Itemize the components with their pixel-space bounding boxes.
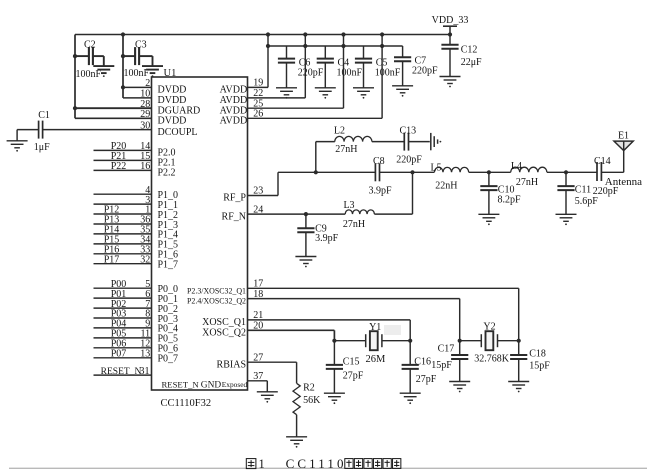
wire pin 24 RF_N: [248, 213, 346, 215]
inductor L3 27nH: [343, 200, 375, 230]
capacitor C5 100nF: [355, 46, 401, 88]
svg-text:1: 1: [259, 457, 265, 471]
svg-text:100nF: 100nF: [337, 67, 363, 78]
svg-text:5.6pF: 5.6pF: [575, 196, 599, 207]
pin 2 DVDD left: [145, 78, 186, 96]
inductor L2 27nH: [334, 126, 372, 156]
wire pin 17: [248, 287, 519, 289]
svg-text:Exposed: Exposed: [222, 380, 248, 389]
capacitor C15 27pF: [326, 341, 364, 394]
svg-text:13: 13: [140, 349, 150, 360]
svg-text:3.9pF: 3.9pF: [368, 186, 392, 197]
antenna E1: [605, 131, 642, 188]
pin 33 P1_6 left: [94, 245, 179, 261]
wire L2 to C13: [372, 141, 404, 143]
pin 30 DCOUPL left: [140, 120, 197, 138]
pin 10 DVDD left: [140, 89, 186, 107]
ground C2: [93, 66, 114, 77]
capacitor C10 8.2pF: [480, 172, 521, 214]
pin 3 P1_1 left: [94, 195, 179, 211]
capacitor C3 100nF: [121, 40, 153, 80]
svg-text:VDD_33: VDD_33: [432, 15, 469, 26]
svg-text:P07: P07: [111, 349, 127, 360]
svg-text:29: 29: [140, 109, 150, 120]
node top rail drop pin19: [266, 32, 270, 36]
pin 8 P0_3 left: [94, 309, 179, 325]
svg-text:C15: C15: [343, 356, 360, 367]
capacitor C6 220pF: [278, 46, 324, 88]
svg-text:RF_N: RF_N: [222, 211, 246, 222]
svg-text:R2: R2: [303, 383, 315, 394]
node VDD_33 junction: [448, 32, 452, 36]
svg-text:22μF: 22μF: [461, 57, 482, 68]
pin 7 P0_2 left: [94, 299, 179, 315]
svg-text:GND: GND: [201, 380, 222, 390]
capacitor C7 220pF: [394, 46, 438, 86]
svg-text:P1_7: P1_7: [158, 260, 179, 271]
svg-text:P2.2: P2.2: [158, 168, 176, 179]
wire R2 to ground: [296, 415, 298, 437]
svg-text:27pF: 27pF: [343, 370, 364, 381]
node top rail drop pin26: [380, 32, 384, 36]
svg-text:30: 30: [140, 120, 150, 131]
node top rail / C3 rail junction: [121, 32, 125, 36]
pin 27 right: [217, 352, 264, 370]
pin 32 P1_7 left: [94, 254, 179, 270]
caption figure rule: [9, 467, 647, 469]
svg-text:U1: U1: [164, 68, 177, 79]
svg-text:220pF: 220pF: [412, 65, 438, 76]
svg-text:P0_7: P0_7: [158, 354, 179, 365]
pin 21 right: [202, 310, 263, 328]
svg-text:15pF: 15pF: [529, 360, 550, 371]
svg-text:P2.4/XOSC32_Q2: P2.4/XOSC32_Q2: [187, 297, 246, 306]
svg-text:RESET_N: RESET_N: [162, 379, 200, 389]
svg-text:27nH: 27nH: [516, 177, 538, 188]
wire pin 10 DVDD: [123, 97, 152, 99]
pin 16 P2.2 left: [94, 161, 176, 179]
svg-text:26: 26: [253, 109, 263, 120]
wire left DVDD rail: [74, 35, 76, 119]
wire C13 to ground stub: [409, 141, 430, 143]
pin 37 right: [253, 371, 263, 382]
svg-text:DVDD: DVDD: [158, 116, 187, 127]
capacitor C8 3.9pF: [368, 156, 392, 197]
capacitor C4 100nF: [317, 46, 363, 88]
node RF C10 tap: [487, 170, 491, 174]
svg-text:AVDD: AVDD: [220, 116, 248, 127]
svg-text:C16: C16: [414, 357, 431, 368]
svg-text:P22: P22: [111, 161, 127, 172]
capacitor C18 15pF: [510, 341, 550, 382]
crystal Y1 26M: [365, 322, 386, 365]
pin 6 P0_1 left: [94, 289, 179, 305]
ground C4: [315, 88, 336, 99]
svg-text:E1: E1: [618, 131, 629, 142]
ground C9: [295, 257, 316, 268]
svg-text:32.768K: 32.768K: [474, 354, 510, 365]
pin 17 right: [187, 279, 263, 296]
svg-text:L3: L3: [343, 200, 354, 211]
svg-text:C18: C18: [529, 349, 546, 360]
pin 34 P1_5 left: [94, 235, 179, 251]
pin 15 P2.1 left: [94, 151, 176, 169]
svg-text:P17: P17: [104, 254, 120, 265]
capacitor C16 27pF: [402, 341, 437, 394]
pin 29 DVDD left: [140, 109, 186, 127]
wire pin 28 DGUARD: [75, 107, 152, 109]
ground C17: [449, 382, 470, 393]
svg-text:31: 31: [140, 366, 150, 377]
svg-text:27pF: 27pF: [416, 374, 437, 385]
node bypass rail x382: [380, 44, 384, 48]
svg-text:26M: 26M: [365, 354, 386, 365]
svg-text:1μF: 1μF: [34, 142, 50, 153]
svg-text:220pF: 220pF: [298, 67, 324, 78]
svg-text:P2.3/XOSC32_Q1: P2.3/XOSC32_Q1: [187, 286, 246, 295]
svg-text:C12: C12: [461, 45, 478, 56]
wire pin 25 AVDD: [248, 107, 344, 109]
ground C10: [478, 214, 499, 225]
wire pin 21: [248, 319, 411, 321]
inductor L4 27nH: [511, 161, 547, 188]
wire pin 26 AVDD: [248, 117, 383, 119]
pin 28 DGUARD left: [140, 99, 200, 117]
crystal Y2 32.768K: [474, 322, 510, 365]
wire pin 23 RF_P: [248, 195, 279, 197]
svg-text:19: 19: [253, 78, 263, 89]
pin 24 right: [222, 204, 264, 222]
ground C1: [7, 141, 28, 152]
wire VDD top rail: [75, 34, 450, 36]
node pin2 junction on C3 rail: [121, 85, 125, 89]
wire Y2 leads: [460, 340, 482, 342]
svg-text:CC1110: CC1110: [286, 456, 347, 471]
svg-text:C11: C11: [575, 184, 591, 195]
resistor R2 56K: [293, 383, 321, 415]
node RF C11 tap: [564, 170, 568, 174]
node C9 tap: [304, 212, 308, 216]
svg-text:DVDD: DVDD: [158, 85, 187, 96]
svg-text:DCOUPL: DCOUPL: [158, 127, 198, 138]
pin 14 P2.0 left: [94, 141, 176, 159]
node Y1 right: [408, 339, 412, 343]
svg-text:XOSC_Q1: XOSC_Q1: [202, 317, 246, 328]
svg-text:100nF: 100nF: [76, 69, 102, 80]
svg-text:220pF: 220pF: [396, 154, 422, 165]
svg-text:RESET_N: RESET_N: [101, 367, 142, 377]
wire pin 27 RBIAS: [248, 361, 297, 363]
svg-text:L4: L4: [511, 161, 522, 172]
wire pin 20: [248, 329, 335, 331]
node top rail drop pin25: [341, 32, 345, 36]
svg-text:32: 32: [140, 254, 150, 265]
svg-text:15pF: 15pF: [431, 360, 452, 371]
op IC U1 CC1110F32 body: [152, 77, 248, 390]
pin 13 P0_7 left: [94, 349, 179, 365]
svg-text:CC1110F32: CC1110F32: [161, 398, 212, 409]
node RF L2 branch: [314, 170, 318, 174]
node RF C8 out: [410, 170, 414, 174]
svg-text:C3: C3: [135, 40, 147, 51]
pin 25 right: [220, 98, 264, 116]
svg-text:RF_P: RF_P: [223, 193, 246, 204]
wire pin 29 DVDD: [75, 117, 152, 119]
capacitor C17 15pF: [431, 341, 468, 382]
pin 26 right: [220, 109, 264, 127]
svg-text:16: 16: [140, 161, 150, 172]
svg-text:AVDD: AVDD: [220, 85, 248, 96]
capacitor C2 100nF: [73, 40, 104, 81]
node bypass rail x268: [266, 44, 270, 48]
ground R2: [286, 437, 307, 448]
svg-text:C8: C8: [373, 156, 385, 167]
pin 31 RESET_N left: [94, 366, 152, 377]
wire pin 18: [248, 298, 460, 300]
wire AVDD bypass rail: [268, 45, 403, 47]
pin 4 P1_0 left: [94, 185, 179, 201]
wire C8 node to RF_N line: [412, 172, 414, 214]
capacitor C13 220pF: [396, 126, 422, 166]
svg-text:8.2pF: 8.2pF: [498, 195, 522, 206]
wire pin 37 GND: [248, 380, 268, 382]
pin 22 right: [220, 88, 264, 106]
svg-text:C1: C1: [38, 110, 50, 121]
svg-text:Antenna: Antenna: [605, 176, 642, 188]
ground C15: [324, 393, 345, 404]
capacitor C9 3.9pF: [297, 214, 338, 256]
svg-text:22nH: 22nH: [435, 181, 457, 192]
capacitor C12 22uF: [441, 35, 482, 77]
svg-text:27nH: 27nH: [335, 144, 357, 155]
node bypass rail x343: [341, 44, 345, 48]
wire pin 2 DVDD: [123, 86, 152, 88]
scan artifact smudge: [384, 325, 401, 335]
ground C5: [353, 88, 374, 99]
svg-text:Y2: Y2: [483, 322, 495, 333]
ground C7: [392, 86, 413, 97]
wire pin 22 AVDD: [248, 97, 306, 99]
node bypass rail x305: [303, 44, 307, 48]
wire pin 19 AVDD: [248, 86, 269, 88]
node top rail drop pin22: [303, 32, 307, 36]
ground C13 sideways: [431, 133, 442, 150]
node Y1 left: [332, 339, 336, 343]
caption 图1 CC1110硬件电路设计: [246, 456, 401, 471]
svg-text:L2: L2: [334, 126, 345, 137]
ground C3: [142, 66, 163, 77]
wire pin 30 DCOUPL: [43, 129, 152, 131]
svg-text:L5: L5: [430, 163, 441, 174]
capacitor C14 220pF: [593, 156, 619, 197]
wire L2 branch riser: [315, 142, 317, 173]
svg-text:C14: C14: [594, 156, 611, 167]
wire RF_P main line: [278, 171, 375, 173]
pin 11 P0_5 left: [94, 329, 179, 345]
node Y2 right: [517, 339, 521, 343]
ground C6: [276, 88, 297, 99]
svg-text:2: 2: [145, 78, 150, 89]
pin 20 right: [202, 321, 263, 339]
ground pin 37: [257, 392, 278, 403]
svg-text:C2: C2: [84, 40, 96, 51]
node pin28 junction on left rail: [73, 106, 77, 110]
capacitor C11 5.6pF: [557, 172, 598, 214]
svg-text:3.9pF: 3.9pF: [315, 233, 339, 244]
pin 36 P1_3 left: [94, 215, 179, 231]
wire L3 to C8 node: [374, 213, 412, 215]
svg-text:56K: 56K: [303, 395, 321, 406]
ground C11: [556, 214, 577, 225]
ground C18: [508, 382, 529, 393]
svg-text:RBIAS: RBIAS: [217, 359, 246, 370]
pin 1 P1_2 left: [94, 205, 179, 221]
wire C3 digital rail: [122, 35, 124, 98]
inductor L5 22nH: [430, 163, 468, 192]
pin 23 right: [223, 186, 263, 204]
pin 35 P1_4 left: [94, 225, 179, 241]
capacitor C1 1uF: [17, 110, 50, 153]
wire Y1 leads: [334, 340, 365, 342]
svg-text:C17: C17: [438, 344, 455, 355]
pin 5 P0_0 left: [94, 279, 179, 295]
pin 12 P0_6 left: [94, 339, 179, 355]
ground C16: [400, 393, 421, 404]
node Y2 left: [458, 339, 462, 343]
ground C12: [440, 77, 461, 88]
pin 9 P0_4 left: [94, 319, 179, 335]
svg-text:27nH: 27nH: [343, 219, 365, 230]
svg-text:Y1: Y1: [369, 322, 381, 333]
pin 19 right: [220, 78, 264, 96]
svg-text:100nF: 100nF: [375, 67, 401, 78]
pin 18 right: [187, 289, 263, 306]
svg-text:XOSC_Q2: XOSC_Q2: [202, 328, 246, 339]
svg-text:C13: C13: [399, 126, 416, 137]
